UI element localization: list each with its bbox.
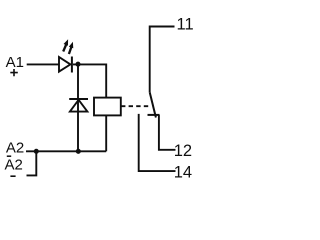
svg-text:14: 14 [174,163,192,181]
svg-text:11: 11 [177,16,194,34]
svg-text:12: 12 [174,142,192,160]
svg-text:A2: A2 [6,139,24,156]
svg-text:A1: A1 [6,54,24,71]
svg-text:A2: A2 [5,156,23,173]
